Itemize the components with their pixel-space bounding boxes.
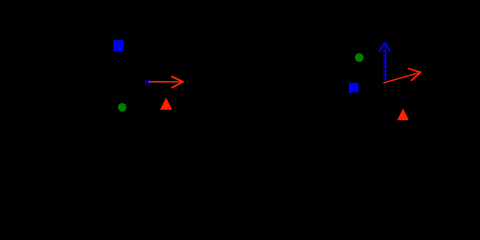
red arrow chevron head (right group) <box>409 69 421 81</box>
marker: blue square (right group) <box>349 83 359 93</box>
blue arrow chevron head (right group) <box>379 43 390 51</box>
blue dotted companion line (right group) <box>383 50 385 79</box>
red arrow shaft (right group, diagonal) <box>383 73 419 83</box>
red arrow shaft (left group) <box>148 81 182 83</box>
red arrow chevron head (left group) <box>172 77 183 88</box>
blue solid arrow shaft (right group, vertical) <box>385 44 387 83</box>
black notch over blue square bottom (occluding curve) <box>352 92 357 96</box>
tiny blue arrow tail bar (left group) <box>145 79 146 84</box>
marker: blue square (left group) <box>113 40 123 51</box>
marker: green circle (right group) <box>355 53 364 62</box>
marker: green circle (left group) <box>118 103 127 112</box>
tiny blue arrow head (left group) <box>148 79 151 84</box>
marker: red triangle (right group) <box>397 108 409 120</box>
marker: red triangle (left group) <box>160 98 172 110</box>
